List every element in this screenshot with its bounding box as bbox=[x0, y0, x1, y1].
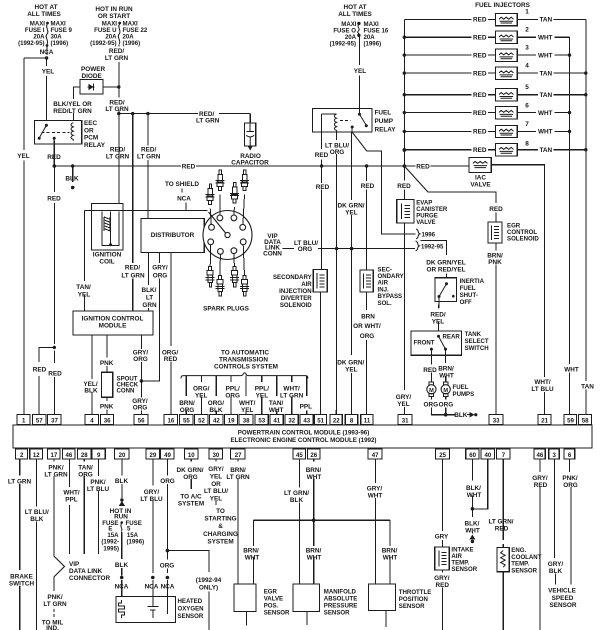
svg-text:NCA: NCA bbox=[115, 584, 129, 591]
wire: pin 10 DK GRN/ORG to A/C bbox=[190, 459, 192, 489]
wire: injector feed bus vertical bbox=[403, 19, 405, 166]
svg-text:GRY/: GRY/ bbox=[367, 486, 383, 493]
svg-text:LT GRN: LT GRN bbox=[43, 601, 67, 608]
PCM pin 21 bbox=[538, 415, 551, 425]
svg-text:LT GRN: LT GRN bbox=[280, 392, 304, 399]
PCM pin 45 bbox=[293, 449, 306, 459]
splice bracket 1992-95 bbox=[416, 241, 420, 251]
PCM pin 33 bbox=[489, 415, 503, 425]
svg-text:WHT: WHT bbox=[538, 129, 553, 136]
svg-text:DK GRN/: DK GRN/ bbox=[337, 360, 364, 367]
PCM pin 26 bbox=[307, 449, 320, 459]
PCM pin 37 bbox=[48, 415, 61, 425]
svg-text:PPL: PPL bbox=[300, 403, 313, 410]
wire: GRY/ORG from ICM to pin 56 bbox=[140, 335, 142, 415]
svg-text:WHT: WHT bbox=[467, 492, 482, 499]
wire: bypass sol to pin 11 bbox=[366, 292, 368, 415]
main RED/LT GRN bus from diode bbox=[119, 113, 250, 115]
svg-text:3: 3 bbox=[525, 45, 529, 52]
svg-text:GRY/: GRY/ bbox=[152, 265, 168, 272]
spark plug wires (bottom) bbox=[210, 245, 244, 276]
svg-text:BLK: BLK bbox=[115, 478, 129, 485]
svg-text:WHT/: WHT/ bbox=[283, 385, 300, 392]
wire: relay coil left (RED) down to main RED line bbox=[321, 114, 323, 166]
PCM pin 29 bbox=[146, 449, 160, 459]
node: NCA dot (pin 49) bbox=[166, 576, 170, 580]
svg-text:ORG: ORG bbox=[183, 474, 198, 481]
svg-text:1995): 1995) bbox=[103, 546, 119, 553]
svg-text:16: 16 bbox=[168, 417, 175, 424]
PCM pin 30 bbox=[209, 449, 223, 459]
svg-text:2: 2 bbox=[20, 452, 24, 459]
wire: bus drop to EGR valve pos sensor bbox=[252, 520, 254, 584]
PCM pin 41 bbox=[270, 415, 283, 425]
svg-text:YEL: YEL bbox=[78, 292, 91, 299]
wire: pin 3 GRY/BLK to VSS bbox=[555, 459, 556, 585]
wire: coil secondary line to distributor rotor (y=210.5) bbox=[84, 210, 207, 212]
svg-text:RED/: RED/ bbox=[110, 147, 125, 154]
svg-text:BRN/: BRN/ bbox=[306, 548, 322, 555]
svg-text:NCA: NCA bbox=[145, 584, 159, 591]
PCM pin 49 bbox=[161, 449, 174, 459]
node: ORG splice to 1992-94 bbox=[166, 549, 170, 553]
svg-text:YEL: YEL bbox=[210, 473, 223, 480]
wire: relay contact diagonal to 1996 splice bbox=[352, 132, 367, 151]
svg-text:7: 7 bbox=[502, 452, 506, 459]
svg-text:LT GRN/: LT GRN/ bbox=[284, 490, 309, 497]
svg-text:10: 10 bbox=[188, 452, 195, 459]
BRN/WHT sensor supply bus bbox=[253, 519, 390, 521]
svg-text:31: 31 bbox=[402, 417, 409, 424]
EEC or PCM relay K1 bbox=[34, 120, 106, 149]
svg-text:YEL: YEL bbox=[42, 69, 55, 76]
svg-text:ALL TIMES: ALL TIMES bbox=[338, 11, 372, 18]
wire: LT BLU/ORG line to splice bbox=[318, 248, 352, 250]
svg-text:46: 46 bbox=[66, 452, 73, 459]
node: injector8 feed dot bbox=[403, 148, 406, 151]
svg-text:POS.: POS. bbox=[264, 603, 279, 610]
svg-text:SYSTEM: SYSTEM bbox=[207, 538, 233, 545]
svg-text:HOT AT: HOT AT bbox=[34, 4, 57, 11]
svg-text:RED/: RED/ bbox=[141, 147, 156, 154]
svg-text:BRN: BRN bbox=[361, 313, 375, 320]
svg-text:41: 41 bbox=[273, 417, 280, 424]
wire: bracket drop pin 38 bbox=[245, 376, 247, 415]
ignition coil T1 bbox=[91, 204, 123, 266]
svg-text:VALVE: VALVE bbox=[470, 181, 491, 188]
node: RED line dot at x=366.6 bbox=[365, 164, 368, 167]
svg-text:WHT: WHT bbox=[269, 407, 284, 414]
svg-text:ALL TIMES: ALL TIMES bbox=[27, 11, 61, 18]
svg-text:OR: OR bbox=[211, 481, 221, 488]
svg-text:YEL: YEL bbox=[210, 496, 223, 503]
svg-text:ORG/: ORG/ bbox=[193, 385, 210, 392]
wire: GRY/ORG distributor down to ICM junction bbox=[141, 253, 159, 382]
svg-text:ORG: ORG bbox=[153, 273, 168, 280]
wire: splice merge to inertia switch bbox=[421, 241, 447, 256]
svg-text:RELAY: RELAY bbox=[375, 127, 397, 134]
svg-text:RED: RED bbox=[48, 371, 62, 378]
svg-text:(1992-95): (1992-95) bbox=[18, 40, 44, 47]
svg-text:BLK/: BLK/ bbox=[142, 287, 157, 294]
svg-text:GRY/: GRY/ bbox=[434, 575, 450, 582]
svg-text:TAN: TAN bbox=[581, 383, 594, 390]
svg-text:CONN: CONN bbox=[263, 250, 282, 257]
svg-text:OR START: OR START bbox=[98, 13, 130, 20]
svg-text:IAC: IAC bbox=[475, 174, 486, 181]
svg-text:PPL: PPL bbox=[65, 497, 78, 504]
wire: pin 7 LT GRN/RED to ECT sensor bbox=[502, 459, 504, 630]
svg-text:TRANSMISSION: TRANSMISSION bbox=[219, 357, 268, 364]
svg-text:INJECTION: INJECTION bbox=[279, 288, 312, 295]
svg-text:GRY/: GRY/ bbox=[396, 394, 412, 401]
fuse block 1: HOT AT ALL TIMES / MAXI FUSE I-9 bbox=[18, 4, 72, 56]
svg-text:ORG: ORG bbox=[225, 392, 240, 399]
svg-text:9: 9 bbox=[97, 452, 101, 459]
svg-text:DIODE: DIODE bbox=[82, 73, 103, 80]
wire: bracket drop pin 52 bbox=[200, 376, 202, 415]
svg-text:BLK: BLK bbox=[290, 497, 304, 504]
wire: relay coil bottom (LT BLU/ORG) down to VIP line bbox=[336, 132, 338, 248]
svg-text:1: 1 bbox=[22, 417, 26, 424]
svg-text:MANIFOLD: MANIFOLD bbox=[324, 589, 357, 596]
svg-text:PNK/: PNK/ bbox=[47, 594, 62, 601]
svg-text:BLK/: BLK/ bbox=[465, 521, 480, 528]
fuel injector 7 bbox=[404, 121, 569, 138]
node: injector6 feed dot bbox=[403, 111, 406, 114]
wire: pin 60 BLK/WHT ground bbox=[471, 459, 473, 534]
arrow: HOT IN RUN feed marker bbox=[120, 498, 123, 501]
svg-text:(1992-95): (1992-95) bbox=[330, 41, 356, 48]
svg-text:4: 4 bbox=[525, 63, 529, 70]
svg-text:VALVE: VALVE bbox=[264, 596, 283, 603]
ignition control module bbox=[73, 311, 153, 335]
svg-text:PNK/: PNK/ bbox=[48, 464, 63, 471]
svg-text:DIVERTER: DIVERTER bbox=[281, 295, 312, 302]
wire: WHT bus to pin 59 bbox=[569, 37, 571, 414]
svg-text:THROTTLE: THROTTLE bbox=[399, 589, 432, 596]
radio capacitor C1 bbox=[231, 114, 269, 167]
wire: PNK from ICM to SPOUT connector bbox=[106, 335, 108, 372]
secondary air injection diverter solenoid bbox=[273, 270, 327, 310]
wire: bracket drop pin 43 bbox=[306, 376, 308, 415]
svg-text:40: 40 bbox=[485, 452, 492, 459]
wire: ORG/RED distributor down to pin 16 bbox=[170, 253, 172, 415]
svg-text:INERTIA: INERTIA bbox=[460, 278, 485, 285]
svg-text:1996: 1996 bbox=[422, 232, 436, 239]
wire: RED to front pump bbox=[430, 349, 432, 382]
PCM pin 56 bbox=[134, 415, 148, 425]
svg-text:TAN: TAN bbox=[539, 92, 552, 99]
wire: pin 27 BRN/LT GRN to EGR valve pos sensor bbox=[237, 459, 239, 584]
svg-text:12: 12 bbox=[33, 452, 40, 459]
wire: junction left to YEL pin-1 drop bbox=[24, 57, 47, 59]
PCM pin 53 bbox=[255, 415, 268, 425]
wire: fuse1 to NCA junction bbox=[46, 47, 48, 56]
node: injector2 feed dot bbox=[403, 36, 406, 39]
PCM pin 16 bbox=[164, 415, 177, 425]
svg-text:PUMP: PUMP bbox=[375, 118, 394, 125]
svg-text:RED: RED bbox=[361, 183, 375, 190]
spark plug 5 (bottom row) bbox=[206, 267, 215, 288]
engine coolant temp sensor box bbox=[497, 547, 542, 574]
fuel pump motor M1 bbox=[427, 382, 436, 397]
svg-text:WHT/: WHT/ bbox=[239, 400, 256, 407]
ground marker (dot) below BLK bbox=[71, 186, 75, 190]
svg-text:TAN/: TAN/ bbox=[78, 464, 93, 471]
svg-text:LT GRN: LT GRN bbox=[105, 55, 129, 62]
svg-text:IGNITION: IGNITION bbox=[93, 252, 122, 259]
node: TAN bus dot inj8 bbox=[584, 148, 587, 151]
svg-text:YEL: YEL bbox=[241, 407, 254, 414]
svg-text:ORG: ORG bbox=[330, 149, 345, 156]
svg-text:LT GRN: LT GRN bbox=[196, 118, 220, 125]
svg-text:LT: LT bbox=[146, 295, 153, 302]
PCM pin 27 bbox=[231, 449, 245, 459]
svg-text:IGNITION CONTROL: IGNITION CONTROL bbox=[82, 316, 144, 323]
wire: pin 40 joins pin 60 bbox=[472, 459, 487, 509]
svg-text:RED: RED bbox=[47, 196, 61, 203]
wire: BRN/WHT to rear pump bbox=[445, 349, 447, 382]
svg-text:52: 52 bbox=[198, 417, 205, 424]
svg-text:SENSOR: SENSOR bbox=[451, 566, 477, 573]
svg-text:EGR: EGR bbox=[264, 589, 278, 596]
svg-text:47: 47 bbox=[372, 452, 379, 459]
manifold absolute pressure sensor box bbox=[293, 584, 357, 625]
wire: RED/LT GRN drop to ICM bbox=[132, 114, 134, 311]
svg-text:(1992-: (1992- bbox=[101, 539, 119, 546]
svg-text:43: 43 bbox=[303, 417, 310, 424]
fuse E / fuse 5 (15A) bbox=[101, 520, 144, 553]
svg-text:38: 38 bbox=[243, 417, 250, 424]
svg-text:ORG: ORG bbox=[180, 407, 195, 414]
svg-text:17: 17 bbox=[51, 452, 58, 459]
svg-text:37: 37 bbox=[51, 417, 58, 424]
svg-text:46: 46 bbox=[537, 452, 544, 459]
svg-text:WHT: WHT bbox=[383, 555, 398, 562]
svg-text:RED: RED bbox=[436, 582, 450, 589]
svg-text:REAR: REAR bbox=[443, 333, 461, 340]
fuel injector 5 bbox=[404, 84, 586, 101]
PCM pin 9 bbox=[92, 449, 105, 459]
svg-text:SHUT-: SHUT- bbox=[460, 292, 478, 299]
wire: pin 49 ORG to HO2S with 1992-94 branch bbox=[166, 459, 168, 597]
wire: label to inertia switch bbox=[446, 274, 448, 284]
wire: RED down to bypass solenoid bbox=[366, 166, 368, 270]
svg-text:TO: TO bbox=[216, 508, 225, 515]
node: diode output junction bbox=[117, 85, 120, 88]
svg-text:SOLENOID: SOLENOID bbox=[507, 235, 539, 242]
node: RED line dots at x=404.3 bbox=[403, 149, 406, 152]
svg-text:&: & bbox=[218, 523, 223, 530]
svg-text:RED: RED bbox=[473, 70, 487, 77]
svg-text:SECONDARY: SECONDARY bbox=[273, 274, 312, 281]
wire: bracket drop pin 32 bbox=[291, 376, 293, 415]
svg-text:ABSOLUTE: ABSOLUTE bbox=[324, 596, 358, 603]
svg-text:GRY/: GRY/ bbox=[144, 489, 160, 496]
svg-text:BRN/: BRN/ bbox=[243, 548, 259, 555]
PCM / EEC module box bbox=[13, 425, 592, 448]
svg-text:RED: RED bbox=[33, 367, 47, 374]
wire: junction down to EEC relay top bbox=[46, 58, 48, 120]
svg-text:(1996): (1996) bbox=[127, 539, 145, 546]
wire: RED/YEL inertia to tank select bbox=[438, 297, 440, 332]
node: bus dot distributor feed bbox=[146, 112, 149, 115]
svg-text:TAN: TAN bbox=[539, 17, 552, 24]
IAC valve bbox=[469, 158, 491, 189]
spark plug 2 (top row) bbox=[215, 170, 224, 191]
wire: BLK/LT GRN distributor to ICM bbox=[147, 253, 149, 312]
wire: TAN/YEL from coil line down to ICM bbox=[83, 211, 85, 312]
PCM pin 2 bbox=[16, 449, 28, 459]
svg-text:BLK: BLK bbox=[65, 176, 79, 183]
svg-text:BLK: BLK bbox=[115, 562, 129, 569]
wire: pin 46 to VIP connector bbox=[69, 459, 71, 554]
wire: pin 25 GRY to IAT sensor bbox=[442, 459, 444, 547]
svg-text:LT BLU: LT BLU bbox=[140, 496, 163, 503]
PCM pin 52 bbox=[195, 415, 208, 425]
svg-text:PPL/: PPL/ bbox=[226, 385, 240, 392]
svg-text:YEL: YEL bbox=[354, 68, 367, 75]
PCM pin 11 bbox=[361, 415, 373, 425]
svg-text:1992-95: 1992-95 bbox=[421, 244, 444, 251]
wire: BLK/LT GRN bus drop to distributor bbox=[147, 114, 149, 219]
svg-text:LT BLU/: LT BLU/ bbox=[25, 509, 49, 516]
svg-text:YEL: YEL bbox=[195, 392, 208, 399]
wire: VIP conn dash bbox=[283, 248, 295, 250]
svg-text:RED: RED bbox=[473, 129, 487, 136]
svg-text:59: 59 bbox=[567, 417, 574, 424]
svg-text:HOT AT: HOT AT bbox=[343, 4, 366, 11]
svg-text:LT GRN: LT GRN bbox=[121, 273, 145, 280]
svg-text:TO AUTOMATIC: TO AUTOMATIC bbox=[221, 349, 269, 356]
wire: EGR sol to pin 33 bbox=[495, 243, 497, 414]
wire: diverter to pin 51 bbox=[319, 292, 321, 415]
svg-text:WHT: WHT bbox=[564, 366, 579, 373]
fuse block 3: HOT AT ALL TIMES / MAXI FUSE O-16 bbox=[330, 4, 389, 48]
fuel pump relay K2 bbox=[312, 109, 396, 134]
spark plug 3 (top row) bbox=[230, 183, 239, 204]
EGR valve position sensor box bbox=[234, 584, 290, 625]
ground arrow for pumps bbox=[467, 414, 470, 416]
svg-text:53: 53 bbox=[258, 417, 265, 424]
main RED line across page (y=166) bbox=[54, 165, 469, 167]
node: TAN bus dot inj4 bbox=[584, 71, 587, 74]
svg-text:TANK: TANK bbox=[465, 331, 482, 338]
node: pin57/37 split bbox=[53, 346, 56, 349]
svg-text:AIR: AIR bbox=[301, 281, 312, 288]
svg-text:TAN: TAN bbox=[539, 147, 552, 154]
svg-text:RED: RED bbox=[473, 110, 487, 117]
fuel pump motor M2 bbox=[441, 382, 450, 397]
svg-text:(1992-94: (1992-94 bbox=[196, 577, 222, 584]
svg-text:58: 58 bbox=[582, 417, 589, 424]
PCM pin 40 bbox=[481, 449, 494, 459]
PCM pin 47 bbox=[368, 449, 382, 459]
svg-text:WHT: WHT bbox=[538, 52, 553, 59]
svg-text:33: 33 bbox=[493, 417, 500, 424]
PCM pin 19 bbox=[224, 415, 237, 425]
svg-text:OR RED/YEL: OR RED/YEL bbox=[426, 266, 465, 273]
svg-text:DISTRIBUTOR: DISTRIBUTOR bbox=[151, 232, 195, 239]
svg-text:SENSOR: SENSOR bbox=[399, 603, 425, 610]
svg-text:M: M bbox=[443, 388, 448, 394]
wire: pin 46b GRY/RED down bbox=[539, 459, 541, 630]
wire: RED from line down to diverter bbox=[321, 166, 323, 270]
svg-text:RED: RED bbox=[495, 526, 509, 533]
svg-text:42: 42 bbox=[213, 417, 220, 424]
svg-text:TO A/C: TO A/C bbox=[180, 493, 202, 500]
node: EEC relay output junction bbox=[53, 164, 57, 168]
wire: diode output right to junction bbox=[103, 86, 119, 88]
svg-text:RED: RED bbox=[47, 154, 61, 161]
node: bus dot at diode drop bbox=[117, 112, 120, 115]
wire: PNK from SPOUT to pin 36 bbox=[106, 397, 108, 414]
svg-text:FRONT: FRONT bbox=[414, 340, 435, 347]
svg-text:55: 55 bbox=[183, 417, 190, 424]
svg-text:FUEL: FUEL bbox=[460, 285, 476, 292]
svg-text:ORG: ORG bbox=[563, 482, 578, 489]
svg-text:RED: RED bbox=[316, 184, 330, 191]
svg-text:WHT: WHT bbox=[307, 555, 322, 562]
node: injector7 feed dot bbox=[403, 130, 406, 133]
svg-text:RED: RED bbox=[182, 163, 196, 170]
spark plug 4 (top row) bbox=[240, 170, 249, 191]
svg-text:YEL: YEL bbox=[17, 153, 30, 160]
wire: pin 9 to VIP connector bbox=[98, 459, 100, 554]
wire: bracket drop pin 42 bbox=[215, 376, 217, 415]
svg-text:HOT IN RUN: HOT IN RUN bbox=[95, 6, 133, 13]
PCM pin 31 bbox=[398, 415, 412, 425]
distributor box bbox=[141, 218, 204, 252]
svg-text:TAN/: TAN/ bbox=[269, 400, 284, 407]
svg-text:BRN/: BRN/ bbox=[179, 400, 195, 407]
svg-text:VEHICLE: VEHICLE bbox=[548, 588, 576, 595]
node: RED line dot at relay coil bbox=[320, 164, 323, 167]
svg-text:LT GRN/: LT GRN/ bbox=[488, 519, 513, 526]
node: WHT bus dot inj7 bbox=[568, 130, 571, 133]
power diode D1 bbox=[80, 66, 106, 94]
svg-text:56: 56 bbox=[138, 417, 145, 424]
svg-text:RED: RED bbox=[473, 92, 487, 99]
wire: fuse to HO2S bbox=[121, 532, 123, 597]
spark plug 6 (bottom row) bbox=[215, 276, 224, 297]
PCM pin 20 bbox=[115, 449, 130, 459]
node: WHT bus dot inj3 bbox=[568, 53, 571, 56]
svg-text:RED: RED bbox=[473, 35, 487, 42]
svg-text:POSITION: POSITION bbox=[399, 596, 428, 603]
node: BLK splice dot bbox=[120, 576, 124, 580]
wire: RED down to EVAP valve bbox=[403, 166, 405, 200]
svg-text:GRY/: GRY/ bbox=[532, 475, 548, 482]
svg-text:CAPACITOR: CAPACITOR bbox=[231, 160, 269, 167]
svg-text:PNK: PNK bbox=[488, 259, 502, 266]
PCM pin 8 bbox=[345, 415, 358, 425]
svg-text:BRAKE: BRAKE bbox=[10, 574, 33, 581]
wire: pin 28 to VIP connector bbox=[83, 459, 85, 554]
PCM pin 43 bbox=[300, 415, 313, 425]
node: WHT bus dot inj6 bbox=[568, 111, 571, 114]
node: injector5 feed dot bbox=[403, 93, 406, 96]
node: BRN/WHT bus dot bbox=[312, 518, 316, 522]
svg-text:PPL/: PPL/ bbox=[255, 385, 269, 392]
svg-text:BRN/: BRN/ bbox=[306, 467, 322, 474]
wire: diode input left and down to EEC relay coil bbox=[74, 87, 81, 120]
node: pump ground junction bbox=[444, 413, 448, 417]
svg-text:36: 36 bbox=[104, 417, 111, 424]
svg-text:1: 1 bbox=[525, 9, 529, 16]
svg-text:PNK/: PNK/ bbox=[90, 479, 105, 486]
